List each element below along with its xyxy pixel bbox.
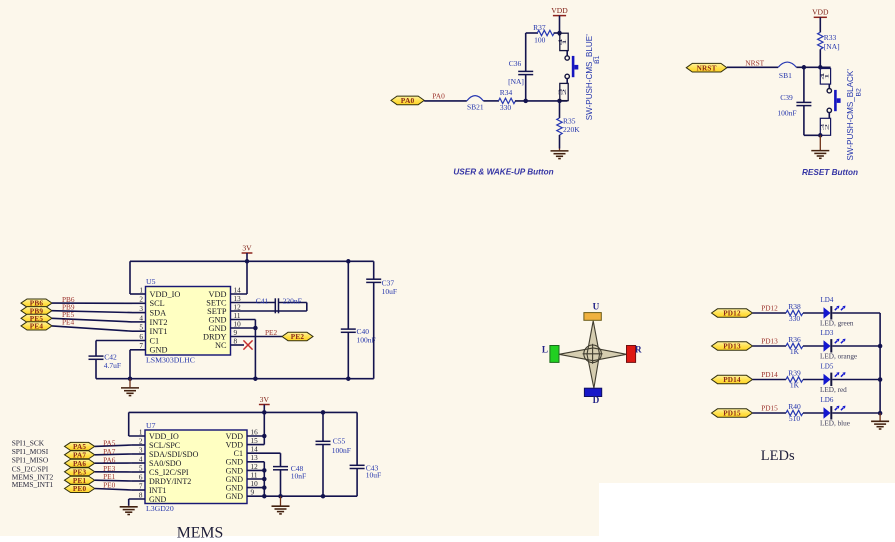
svg-text:9: 9	[251, 489, 255, 497]
svg-text:LD3: LD3	[821, 329, 834, 337]
svg-text:U: U	[593, 302, 600, 312]
svg-text:GND: GND	[226, 492, 244, 501]
svg-text:PD12: PD12	[761, 304, 778, 313]
svg-text:CS_I2C/SPI: CS_I2C/SPI	[149, 468, 189, 477]
svg-text:B1: B1	[594, 55, 601, 64]
svg-text:13: 13	[234, 295, 242, 303]
svg-text:2: 2	[562, 89, 567, 96]
svg-text:100nF: 100nF	[777, 109, 796, 118]
svg-text:7: 7	[139, 482, 143, 490]
svg-text:220nF: 220nF	[283, 296, 302, 305]
svg-text:10: 10	[251, 480, 259, 488]
svg-text:R33: R33	[824, 33, 837, 42]
svg-text:PE3: PE3	[73, 468, 87, 476]
svg-text:220K: 220K	[563, 125, 580, 134]
svg-text:3: 3	[139, 305, 143, 313]
svg-text:PE1: PE1	[73, 477, 87, 485]
svg-text:PA5: PA5	[73, 443, 86, 451]
svg-text:15: 15	[251, 437, 259, 445]
svg-text:R39: R39	[788, 369, 801, 378]
svg-text:2: 2	[139, 437, 143, 445]
svg-text:B2: B2	[856, 88, 863, 97]
svg-text:6: 6	[139, 333, 143, 341]
svg-text:NRST: NRST	[745, 58, 764, 67]
svg-text:SW-PUSH-CMS_BLACK’: SW-PUSH-CMS_BLACK’	[846, 69, 855, 161]
svg-text:9: 9	[234, 329, 238, 337]
svg-text:3V: 3V	[260, 395, 270, 404]
svg-text:LSM303DLHC: LSM303DLHC	[146, 355, 195, 364]
svg-text:1K: 1K	[790, 347, 800, 356]
svg-text:MEMS: MEMS	[177, 525, 224, 542]
svg-text:SB1: SB1	[779, 71, 792, 80]
svg-text:NC: NC	[215, 341, 227, 350]
svg-text:PD14: PD14	[761, 370, 778, 379]
svg-text:[NA]: [NA]	[508, 77, 524, 86]
svg-text:R34: R34	[500, 88, 513, 97]
svg-text:LD4: LD4	[821, 296, 834, 304]
svg-text:4.7uF: 4.7uF	[104, 361, 121, 370]
svg-text:PD15: PD15	[761, 404, 778, 413]
svg-text:SA0/SDO: SA0/SDO	[149, 459, 182, 468]
svg-text:3: 3	[139, 446, 143, 454]
svg-text:LED, blue: LED, blue	[820, 420, 850, 428]
svg-text:L3GD20: L3GD20	[146, 504, 174, 513]
svg-text:L: L	[542, 344, 548, 354]
svg-text:100nF: 100nF	[357, 335, 376, 344]
svg-text:1K: 1K	[790, 381, 800, 390]
svg-text:16: 16	[251, 428, 259, 436]
svg-text:NRST: NRST	[697, 64, 717, 72]
svg-text:5: 5	[139, 324, 143, 332]
svg-text:PA7: PA7	[73, 451, 86, 459]
svg-text:PD13: PD13	[723, 343, 741, 351]
svg-text:SDA/SDI/SDO: SDA/SDI/SDO	[149, 450, 199, 459]
svg-text:PA0: PA0	[401, 96, 415, 105]
svg-text:1: 1	[139, 428, 143, 436]
svg-text:12: 12	[251, 463, 259, 471]
svg-text:U7: U7	[146, 421, 156, 430]
svg-text:INT2: INT2	[150, 318, 168, 327]
svg-text:[NA]: [NA]	[824, 42, 840, 51]
svg-text:PE2: PE2	[265, 328, 278, 337]
svg-text:100nF: 100nF	[332, 446, 351, 455]
svg-text:PE0: PE0	[103, 481, 116, 490]
svg-text:R40: R40	[788, 402, 801, 411]
svg-text:VDD: VDD	[551, 6, 568, 15]
svg-text:PE4: PE4	[62, 318, 75, 327]
svg-text:R36: R36	[788, 335, 801, 344]
svg-text:8: 8	[139, 491, 143, 499]
svg-text:5: 5	[139, 464, 143, 472]
svg-text:C39: C39	[780, 93, 793, 102]
svg-text:PD13: PD13	[761, 337, 778, 346]
svg-text:100: 100	[534, 36, 546, 45]
svg-text:4: 4	[139, 314, 143, 322]
svg-text:SDA: SDA	[150, 309, 167, 318]
svg-text:PA6: PA6	[73, 460, 86, 468]
svg-text:LEDs: LEDs	[761, 448, 795, 464]
svg-text:INT1: INT1	[150, 327, 168, 336]
svg-text:SCL/SPC: SCL/SPC	[149, 441, 180, 450]
svg-text:PD15: PD15	[723, 410, 741, 418]
svg-text:R38: R38	[788, 302, 801, 311]
svg-text:11: 11	[251, 471, 258, 479]
svg-text:LED, green: LED, green	[820, 320, 854, 328]
svg-text:VDD: VDD	[812, 8, 829, 17]
svg-text:330: 330	[500, 103, 512, 112]
svg-text:10uF: 10uF	[366, 471, 381, 480]
svg-text:VDD_IO: VDD_IO	[150, 290, 181, 299]
svg-text:USER & WAKE-UP Button: USER & WAKE-UP Button	[453, 167, 553, 176]
svg-text:6: 6	[139, 473, 143, 481]
svg-text:PE0: PE0	[73, 485, 87, 493]
svg-text:1: 1	[139, 286, 143, 294]
svg-text:SPI1_MISO: SPI1_MISO	[12, 456, 49, 465]
svg-text:R37: R37	[533, 23, 546, 32]
svg-text:4: 4	[139, 455, 143, 463]
svg-text:VDD_IO: VDD_IO	[149, 432, 179, 441]
svg-text:14: 14	[251, 446, 259, 454]
svg-text:PD12: PD12	[723, 310, 741, 318]
svg-text:SW-PUSH-CMS_BLUE’: SW-PUSH-CMS_BLUE’	[585, 34, 594, 120]
svg-text:C41: C41	[256, 296, 269, 305]
svg-text:C55: C55	[333, 436, 346, 445]
svg-text:10nF: 10nF	[291, 472, 306, 481]
svg-text:10uF: 10uF	[382, 287, 397, 296]
svg-text:SPI1_MOSI: SPI1_MOSI	[12, 447, 49, 456]
svg-text:U5: U5	[146, 277, 156, 286]
svg-text:R35: R35	[563, 117, 576, 126]
svg-text:1: 1	[824, 73, 829, 80]
svg-text:8: 8	[234, 337, 238, 345]
svg-text:10: 10	[234, 320, 242, 328]
svg-text:1: 1	[562, 39, 567, 46]
svg-text:SB21: SB21	[467, 103, 484, 112]
svg-text:D: D	[593, 395, 600, 405]
svg-text:PE4: PE4	[30, 323, 44, 331]
svg-text:GND: GND	[149, 495, 167, 504]
svg-text:330: 330	[789, 314, 801, 323]
svg-text:SCL: SCL	[150, 299, 165, 308]
svg-text:C1: C1	[150, 336, 160, 345]
svg-text:LD6: LD6	[821, 396, 834, 404]
svg-text:GND: GND	[150, 346, 168, 355]
svg-text:LED, orange: LED, orange	[820, 353, 857, 361]
svg-text:R: R	[635, 345, 642, 355]
svg-text:PA0: PA0	[432, 91, 445, 100]
svg-text:3V: 3V	[242, 244, 252, 253]
svg-text:12: 12	[234, 303, 242, 311]
svg-text:11: 11	[234, 312, 241, 320]
svg-text:C36: C36	[509, 59, 522, 68]
svg-text:2: 2	[824, 124, 829, 131]
svg-text:LD5: LD5	[821, 362, 834, 370]
svg-text:RESET Button: RESET Button	[802, 168, 858, 177]
svg-text:14: 14	[234, 286, 242, 294]
svg-text:PE2: PE2	[291, 333, 305, 341]
svg-text:510: 510	[789, 414, 801, 423]
svg-text:MEMS_INT1: MEMS_INT1	[12, 480, 54, 489]
svg-text:PD14: PD14	[723, 376, 741, 384]
svg-text:LED, red: LED, red	[820, 386, 847, 394]
svg-text:INT1: INT1	[149, 486, 166, 495]
svg-text:DRDY/INT2: DRDY/INT2	[149, 477, 191, 486]
